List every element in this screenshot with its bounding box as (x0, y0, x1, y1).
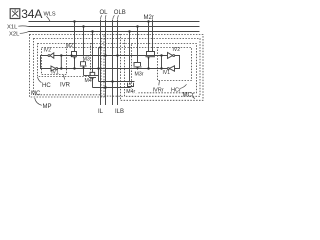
label IVR (60, 75, 71, 89)
svg-text:MP: MP (43, 104, 52, 110)
transistor M3r (134, 27, 142, 71)
node dot M2 left leg on L1 (70, 54, 72, 56)
svg-text:34A: 34A (21, 7, 42, 21)
svg-text:HC: HC (42, 83, 51, 89)
label HC (38, 77, 52, 89)
svg-text:M2: M2 (66, 43, 73, 49)
label X1L (7, 24, 29, 30)
node dot WLS-M2 (73, 20, 75, 22)
svg-text:IV1: IV1 (51, 70, 59, 76)
node dot L1 on bus4 (116, 54, 118, 56)
box MCr cell box (right) (125, 39, 201, 97)
label IVRr (153, 81, 164, 94)
svg-text:IV2: IV2 (173, 47, 181, 53)
wire WLS horizontal line (29, 21, 200, 23)
wire latch feedback loop (left cell) (41, 56, 52, 69)
label M4r (126, 88, 139, 95)
node dot x98 on L2 (97, 67, 99, 69)
node dot L3 on bus3 (111, 80, 113, 82)
wire inter-cell dashed link mid1 (91, 43, 132, 45)
wire rail L5 (84, 75, 99, 77)
box MPr outer cell box (right) (121, 35, 204, 101)
transistor M4r (flipped) (128, 32, 134, 88)
node dot left tap top (60, 54, 62, 56)
svg-text:ILB: ILB (115, 109, 124, 115)
wire latch tap (left) (60, 56, 62, 69)
svg-text:OL: OL (100, 10, 109, 16)
wire vertical bus line 4 (117, 20, 119, 105)
wire line L3 (99, 81, 135, 83)
label X2L (9, 31, 29, 37)
box IVRr latch box (right) (158, 48, 192, 81)
svg-text:IVRr: IVRr (153, 87, 164, 93)
box IVR latch box (left) (42, 48, 67, 75)
svg-text:X1L: X1L (7, 24, 18, 30)
inverter IV2 (right cell, pointing right) (168, 53, 175, 59)
wire X1L horizontal line (29, 26, 200, 28)
node dot X1L-M3 (82, 25, 84, 27)
wire inter-cell dashed link mid2 (67, 47, 158, 49)
node dot right tap top (160, 54, 162, 56)
wire vertical x98 (98, 48, 100, 82)
svg-text:M4r: M4r (126, 89, 135, 95)
svg-text:M3r: M3r (135, 72, 144, 78)
wire inter-cell dashed link top2 (101, 38, 125, 40)
transistor M4 (89, 32, 96, 88)
node dot right tap bottom (160, 67, 162, 69)
transistor M3 (80, 27, 87, 76)
transistor M2r (146, 20, 156, 69)
box MC cell box (left) (34, 39, 102, 95)
inverter IV1 (right cell, pointing left) (167, 66, 174, 71)
svg-text:HCr: HCr (171, 87, 181, 93)
wire node line L2 (shared horizontal) (58, 68, 168, 70)
wire latch feedback loop (right cell) (175, 56, 180, 69)
inverter IV2 (left cell, pointing left) (48, 53, 54, 58)
label OLB (113, 10, 126, 19)
node dot L4 on bus2 (104, 86, 106, 88)
node dot X1L-M3r (136, 25, 138, 27)
label WLS (44, 11, 56, 21)
node dot M2r gate on L2 (147, 67, 149, 69)
svg-text:IV2: IV2 (44, 47, 52, 53)
node dot M2 gate on L2 (73, 67, 75, 69)
node dot L1 on bus2 (104, 54, 106, 56)
wire node line L1 (shared horizontal) (54, 55, 168, 57)
wire inter-cell dashed link bottom (101, 95, 125, 97)
label OL (100, 10, 109, 19)
wire vertical bus line 1 (100, 20, 102, 105)
svg-text:M3: M3 (83, 56, 90, 62)
box HCr half cell (right) (132, 44, 197, 93)
svg-text:IL: IL (98, 109, 104, 115)
svg-text:M4: M4 (85, 78, 92, 84)
node dot stub on OL (99, 46, 101, 48)
node dot left tap bottom (60, 67, 62, 69)
label MP (35, 98, 52, 110)
wire X2L horizontal line (29, 31, 200, 33)
box MP outer cell box (left) (30, 35, 105, 98)
svg-text:IVR: IVR (60, 83, 71, 89)
svg-text:MC: MC (31, 91, 41, 97)
svg-text:MCr: MCr (183, 92, 194, 98)
wire line L4 (93, 87, 131, 89)
node dot WLS-M2r (147, 20, 149, 22)
wire OL stub (99, 47, 101, 49)
wire vertical bus line 2 (105, 20, 107, 105)
label HCr (171, 84, 187, 93)
svg-text:X2L: X2L (9, 31, 20, 37)
wire inter-cell dashed link top1 (104, 34, 121, 36)
node dot X2L-M4r (128, 30, 130, 32)
label M3r (134, 72, 143, 78)
title 図34A (10, 7, 42, 21)
svg-text:IV1: IV1 (163, 70, 171, 76)
box HC half cell (left) (38, 44, 91, 77)
transistor M2 (71, 22, 77, 69)
wire latch tap (right) (161, 56, 163, 69)
node dot X2L-M4 (91, 30, 93, 32)
svg-text:OLB: OLB (114, 10, 126, 16)
wire vertical bus line 3 (112, 20, 114, 105)
inverter IV1 (left cell, pointing right) (51, 66, 58, 71)
label M3 (82, 56, 90, 62)
svg-text:WLS: WLS (44, 11, 56, 17)
